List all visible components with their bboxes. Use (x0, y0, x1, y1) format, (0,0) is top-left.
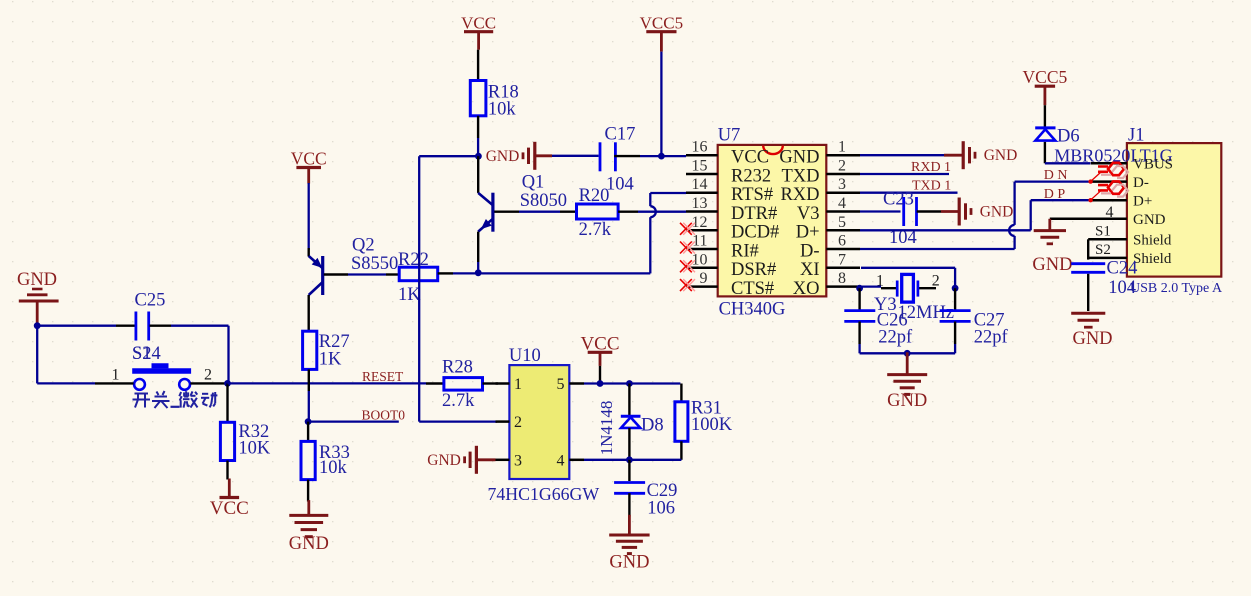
svg-text:12: 12 (692, 214, 708, 231)
capacitor C23 (883, 190, 917, 249)
svg-text:V3: V3 (797, 204, 820, 224)
power VCC above U10 (580, 333, 619, 366)
diode D8 (621, 384, 664, 460)
wire D6 to VBUS (1045, 142, 1091, 163)
svg-text:R28: R28 (442, 357, 473, 377)
svg-text:8: 8 (838, 270, 846, 287)
svg-text:2: 2 (932, 273, 940, 290)
svg-text:S1: S1 (132, 344, 152, 364)
svg-text:104: 104 (606, 175, 634, 195)
op-amp U7 body CH340G (718, 126, 827, 320)
resistor R28 (426, 357, 498, 411)
svg-text:3: 3 (838, 176, 846, 193)
svg-text:C25: C25 (135, 291, 166, 311)
power VCC below R32 (210, 479, 249, 520)
pin 15 R232 of U7 (686, 158, 771, 187)
svg-text:DCD#: DCD# (731, 223, 779, 243)
net label TXD_1 (912, 179, 951, 194)
connector J1 body (1127, 126, 1223, 297)
svg-text:C23: C23 (883, 190, 914, 210)
pin 6 D- of U7 (800, 233, 860, 262)
svg-text:GND: GND (289, 534, 329, 554)
no-ERC marker pin 11 (680, 242, 695, 254)
svg-text:D-: D- (800, 241, 820, 261)
power GND flag at U7 pin1 (860, 141, 1017, 169)
svg-text:1: 1 (514, 376, 522, 393)
capacitor C26 (844, 288, 913, 353)
pin 5 D+ of U7 (796, 214, 860, 243)
svg-text:104: 104 (1108, 278, 1136, 298)
svg-text:1K: 1K (319, 350, 342, 370)
svg-text:GND: GND (980, 204, 1014, 221)
wire R27 down crossing RESET to BOOT0 node (308, 369, 310, 421)
text 开关_微动 switch name (133, 391, 218, 408)
svg-text:C24: C24 (1107, 259, 1138, 279)
diode D8 part number 1N4148 vertical (597, 401, 616, 456)
svg-text:S1: S1 (1095, 223, 1111, 239)
svg-text:Shield: Shield (1133, 251, 1172, 267)
pin S1 Shield of J1 (1088, 223, 1172, 248)
svg-text:1: 1 (112, 367, 120, 384)
pin 8 XO of U7 (793, 270, 860, 299)
svg-text:22pf: 22pf (878, 328, 913, 348)
svg-text:R232: R232 (731, 166, 771, 186)
pin 12 DCD# of U7 (686, 214, 779, 243)
resistor R33 (301, 422, 350, 480)
svg-text:S2: S2 (1095, 242, 1111, 258)
wire R33 to ground (307, 480, 309, 502)
pin 14 RTS# of U7 (686, 176, 773, 205)
svg-text:5: 5 (838, 214, 846, 231)
wire C25 right to switch node (150, 326, 229, 384)
svg-text:VCC5: VCC5 (640, 14, 683, 33)
svg-text:22pf: 22pf (974, 328, 1009, 348)
wire TXD_1 stub (860, 192, 958, 194)
svg-text:10K: 10K (238, 439, 271, 459)
wire XI to crystal (861, 268, 955, 288)
wire XO to crystal (856, 285, 958, 292)
svg-text:S8050: S8050 (520, 191, 567, 211)
resistor R27 (303, 331, 350, 369)
svg-text:1: 1 (838, 139, 846, 156)
resistor R32 (220, 422, 271, 461)
capacitor C25 (135, 291, 166, 341)
node Q1 collector junction (475, 153, 482, 160)
node switch RESET junction (224, 380, 231, 387)
net label RXD_1 (911, 160, 951, 175)
pin 1 GND of U7 (779, 139, 860, 168)
ground GND below C29 earth (609, 515, 649, 573)
wire Q2 base to R22 (324, 273, 399, 275)
svg-text:CTS#: CTS# (731, 279, 774, 299)
net label D_P (1044, 187, 1066, 202)
wire pin4 rail (584, 456, 681, 463)
svg-text:R22: R22 (398, 250, 429, 270)
svg-text:RESET: RESET (362, 369, 404, 384)
svg-text:R20: R20 (579, 186, 610, 206)
pin 9 CTS# of U7 (686, 270, 774, 299)
svg-text:RI#: RI# (731, 241, 759, 261)
svg-text:GND: GND (427, 452, 461, 469)
svg-text:16: 16 (692, 139, 708, 156)
switch pin 1 (95, 367, 134, 384)
wire crystal ground rail (860, 350, 956, 357)
svg-text:10: 10 (692, 251, 708, 268)
svg-text:2: 2 (514, 414, 522, 431)
svg-text:9: 9 (700, 270, 708, 287)
ground GND below crystal earth (887, 352, 927, 411)
svg-text:D-: D- (1133, 175, 1149, 191)
svg-text:RXD 1: RXD 1 (911, 160, 951, 175)
svg-text:VCC: VCC (580, 333, 619, 354)
svg-text:2: 2 (838, 158, 846, 175)
svg-text:D6: D6 (1057, 127, 1080, 147)
wire collector node left and down to U10 pin2 (419, 156, 497, 421)
pin 5 of U10 (557, 376, 585, 393)
node Q1 emitter junction (475, 269, 482, 276)
no-ERC marker pin 12 (680, 223, 695, 235)
svg-text:1N4148: 1N4148 (597, 401, 616, 456)
wire RXD_1 stub (860, 173, 949, 175)
svg-text:TXD 1: TXD 1 (912, 179, 951, 194)
no-ERC markers J1 D- D+ (1088, 163, 1128, 184)
svg-text:4: 4 (557, 452, 565, 469)
svg-text:2.7k: 2.7k (579, 220, 612, 240)
wire R20 right to pin13 (618, 210, 686, 212)
svg-text:5: 5 (557, 376, 565, 393)
pin 4 GND of J1 (1050, 204, 1166, 228)
wire S1 S2 shield to C24 (1087, 239, 1089, 259)
svg-text:100K: 100K (691, 415, 733, 435)
svg-text:GND: GND (984, 147, 1018, 164)
op-amp U10 body 74HC1G66GW (488, 346, 600, 504)
pin S2 Shield of J1 (1088, 242, 1172, 267)
ground GND below R33 earth (289, 500, 329, 554)
svg-text:14: 14 (692, 176, 708, 193)
wire D+ net to J1 (860, 200, 1090, 230)
pin 4 of U10 (557, 452, 585, 469)
svg-text:XO: XO (793, 279, 820, 299)
svg-text:10k: 10k (319, 458, 348, 478)
net label RESET (362, 369, 404, 384)
svg-text:74HC1G66GW: 74HC1G66GW (488, 484, 600, 504)
svg-text:15: 15 (692, 158, 708, 175)
switch 开关_微动 push button (132, 366, 191, 390)
pin 1 of U10 (496, 376, 523, 393)
svg-text:1: 1 (876, 273, 884, 290)
svg-text:USB 2.0 Type A: USB 2.0 Type A (1130, 281, 1223, 296)
wire riser to pin14 with hop (650, 193, 686, 273)
diode D6 (1035, 127, 1079, 147)
wire Q2 collector to R27 (308, 295, 310, 331)
svg-text:GND: GND (17, 270, 57, 290)
power GND flag at C17 (486, 142, 599, 170)
wire VCC to pin5 rail (584, 366, 680, 387)
ground GND top-left earth (17, 270, 59, 326)
svg-text:D8: D8 (641, 416, 664, 436)
power GND flag at C23 (917, 198, 1014, 226)
svg-text:RXD: RXD (780, 185, 819, 205)
crystal Y3 12MHz (874, 273, 954, 324)
resistor R18 (470, 81, 518, 120)
pin 2 D- of J1 (1091, 175, 1149, 191)
svg-text:DSR#: DSR# (731, 260, 776, 280)
svg-text:XI: XI (800, 260, 820, 280)
wire VCC5 to D6 (1044, 105, 1046, 128)
net label BOOT0 (362, 407, 406, 422)
svg-text:Q2: Q2 (352, 236, 375, 256)
svg-text:VCC: VCC (210, 498, 249, 519)
svg-text:BOOT0: BOOT0 (362, 407, 406, 422)
power VCC above R18 (461, 14, 496, 50)
svg-text:GND: GND (609, 553, 649, 573)
node BOOT0 junction (305, 418, 312, 425)
svg-text:3: 3 (514, 452, 522, 469)
svg-text:DTR#: DTR# (731, 204, 777, 224)
ground GND below C24 earth (1071, 313, 1112, 349)
svg-text:D N: D N (1044, 168, 1068, 183)
svg-text:13: 13 (692, 195, 708, 212)
wire R22 right to pin14 riser (438, 272, 651, 274)
transistor Q1 (478, 156, 567, 232)
svg-text:D+: D+ (1133, 193, 1152, 209)
svg-text:10k: 10k (488, 100, 517, 120)
svg-text:GND: GND (779, 148, 819, 168)
pin 3 D+ of J1 (1091, 193, 1152, 209)
wire Q1 emitter down (477, 232, 479, 274)
wire switch node down to R32 (226, 383, 228, 422)
svg-text:1K: 1K (398, 285, 421, 305)
wire C24 to ground (1087, 274, 1089, 311)
capacitor C17 (600, 125, 635, 195)
svg-text:VBUS: VBUS (1133, 157, 1173, 173)
svg-text:VCC: VCC (731, 148, 769, 168)
svg-text:J1: J1 (1128, 126, 1144, 146)
switch S1 S24 designators overlapped (132, 344, 161, 364)
svg-text:VCC5: VCC5 (1023, 67, 1068, 87)
wire C25 left (37, 325, 135, 327)
svg-text:C17: C17 (605, 125, 636, 145)
svg-text:4: 4 (1106, 204, 1114, 221)
svg-text:RTS#: RTS# (731, 185, 773, 205)
resistor R22 (398, 250, 438, 305)
pin 1 VBUS of J1 (1091, 157, 1173, 173)
ground GND at J1 pin4 earth (1032, 219, 1072, 275)
svg-text:GND: GND (486, 148, 520, 165)
svg-text:D+: D+ (796, 223, 820, 243)
power GND flag at U10 pin3 (427, 446, 495, 474)
diode D6 part number MBR0520LT1G (1054, 146, 1172, 166)
wire VCC to R18 (477, 50, 479, 81)
power VCC5 top (640, 14, 683, 52)
pin 11 RI# of U7 (686, 233, 759, 262)
power VCC above Q2 (291, 149, 327, 184)
svg-text:GND: GND (887, 391, 927, 411)
wire Q1 base to R20 (494, 210, 576, 212)
capacitor C29 (614, 460, 677, 519)
power VCC5 above D6 (1023, 67, 1068, 105)
switch pin 2 (190, 367, 227, 384)
wire R32 to VCC (226, 461, 228, 480)
transistor Q2 (309, 236, 399, 296)
wire R18 to collector node (477, 116, 479, 156)
svg-text:2: 2 (204, 367, 212, 384)
pin 16 VCC of U7 (686, 139, 769, 168)
pin 2 TXD of U7 (781, 158, 860, 187)
wire C17 right to VCC5 node (614, 155, 686, 157)
svg-text:7: 7 (838, 251, 846, 268)
wire GND junction to switch column (34, 322, 95, 383)
wire RESET net (228, 382, 427, 384)
pin 7 XI of U7 (800, 251, 860, 280)
svg-text:GND: GND (1133, 212, 1166, 228)
svg-text:U7: U7 (718, 126, 741, 146)
svg-text:GND: GND (1072, 329, 1112, 349)
svg-text:106: 106 (647, 499, 675, 519)
svg-text:CH340G: CH340G (719, 300, 786, 320)
svg-text:TXD: TXD (781, 166, 819, 186)
svg-text:GND: GND (1032, 255, 1072, 275)
net label D_N (1044, 168, 1068, 183)
pin 3 RXD of U7 (780, 176, 860, 205)
svg-text:Shield: Shield (1133, 233, 1172, 249)
wire BOOT0 stub (308, 420, 399, 422)
svg-text:S8550: S8550 (351, 254, 398, 274)
svg-text:Q1: Q1 (522, 173, 545, 193)
svg-text:VCC: VCC (461, 14, 496, 33)
capacitor C27 (940, 288, 1009, 353)
wire VCC5 down to pin16 (658, 52, 665, 160)
svg-text:6: 6 (838, 233, 846, 250)
pin 3 of U10 (496, 452, 523, 469)
capacitor C24 (1071, 259, 1137, 298)
svg-text:D P: D P (1044, 187, 1066, 202)
resistor R20 (577, 186, 619, 240)
svg-text:2.7k: 2.7k (442, 391, 475, 411)
wire VCC to Q2 emitter (308, 183, 310, 257)
svg-text:VCC: VCC (291, 149, 327, 169)
pin 10 DSR# of U7 (686, 251, 776, 280)
pin 4 V3 of U7 (797, 195, 860, 224)
svg-text:4: 4 (838, 195, 846, 212)
wire V3 to C23 (860, 210, 901, 212)
pin 13 DTR# of U7 (686, 195, 777, 224)
wire D- net to J1 with hop (860, 182, 1090, 249)
svg-text:U10: U10 (509, 346, 541, 366)
no-ERC marker pin 10 (680, 260, 695, 272)
resistor R31 (675, 384, 733, 460)
pin 2 of U10 (496, 414, 523, 431)
no-ERC marker pin 9 (680, 279, 695, 291)
